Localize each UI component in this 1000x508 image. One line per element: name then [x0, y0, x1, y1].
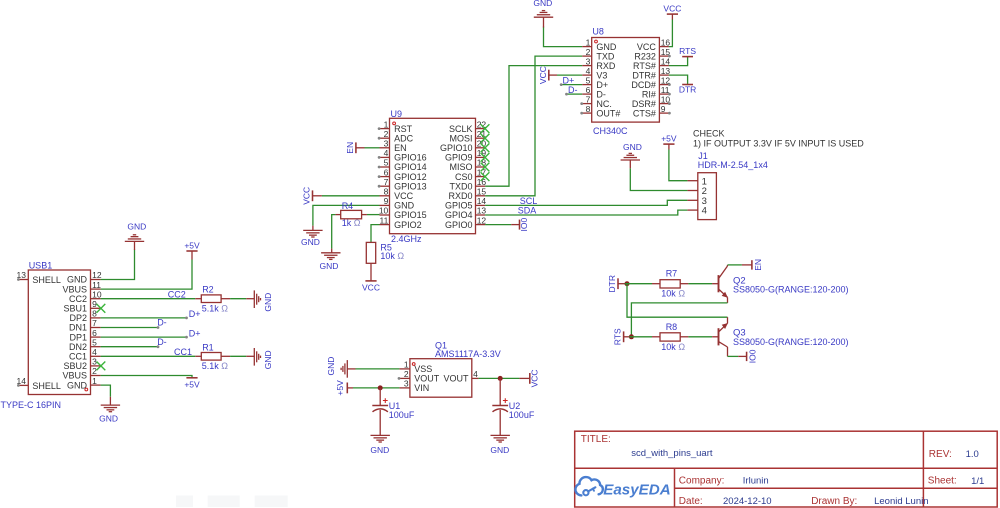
svg-text:3: 3 — [404, 379, 409, 389]
title value 2024-12-10 — [723, 496, 772, 507]
pin dot U8 pin10 — [668, 102, 671, 105]
connector J1 HDR-M-2.54_1x4 — [687, 151, 767, 219]
svg-text:USB1: USB1 — [29, 261, 53, 271]
svg-text:IO0: IO0 — [748, 349, 758, 363]
ground GND (below U9 pin9) — [301, 230, 323, 247]
svg-text:D+: D+ — [189, 329, 201, 339]
svg-text:14: 14 — [661, 56, 671, 66]
pin dot U9 pin5 — [378, 166, 381, 169]
label Q2 — [733, 275, 746, 286]
svg-text:D-: D- — [568, 85, 578, 95]
transistor Q3 — [712, 317, 728, 356]
svg-text:16: 16 — [661, 37, 671, 47]
svg-text:16: 16 — [477, 177, 487, 187]
junction RTS node — [629, 334, 634, 339]
wire DTR to R7 — [625, 283, 652, 285]
wire USB1 pin2 to +5V — [101, 376, 192, 378]
svg-text:RST: RST — [394, 124, 413, 134]
svg-text:RTS: RTS — [613, 328, 623, 345]
pin dot USB1 pin13 — [17, 278, 20, 281]
svg-text:CS0: CS0 — [455, 172, 473, 182]
svg-text:5.1k Ω: 5.1k Ω — [202, 303, 229, 313]
svg-text:EN: EN — [394, 143, 407, 153]
label U1 — [389, 401, 401, 411]
label R1 — [202, 342, 214, 352]
value SS8050-G(RANGE:120-200) (Q3) — [733, 337, 849, 347]
wire U8 pin1 to ground — [544, 17, 583, 46]
svg-text:3: 3 — [384, 139, 389, 149]
svg-text:D-: D- — [157, 318, 167, 328]
svg-text:GPIO12: GPIO12 — [394, 172, 427, 182]
junction at Q1 VIN / U1 — [378, 385, 383, 390]
junction DTR node — [625, 281, 630, 286]
svg-text:VIN: VIN — [414, 383, 429, 393]
net port EN (U9 pin3) — [345, 142, 365, 154]
svg-text:8: 8 — [586, 104, 591, 114]
svg-text:4: 4 — [473, 369, 478, 379]
svg-text:Date:: Date: — [679, 496, 703, 507]
wire USB1 pin12 to ground — [101, 241, 135, 279]
svg-text:15: 15 — [477, 187, 487, 197]
svg-text:EN: EN — [345, 142, 355, 154]
svg-text:12: 12 — [477, 215, 487, 225]
note line 1 — [693, 138, 864, 148]
wire Q3 collector to IO0 — [728, 355, 747, 357]
svg-text:DN1: DN1 — [69, 323, 87, 333]
net port DTR (left of R7) — [607, 275, 625, 292]
title value Irlunin — [743, 475, 769, 486]
wire EN to U9 pin3 — [365, 147, 380, 149]
title value 1.0 — [966, 449, 979, 460]
title label TITLE: — [581, 434, 611, 445]
wire R7 to Q2 base — [688, 283, 712, 285]
no-connect X U9 pin17 — [481, 172, 490, 181]
svg-text:SDA: SDA — [518, 206, 537, 216]
wire U8 pin6 stub — [565, 93, 582, 96]
wire USB1 pin1 to ground — [101, 385, 111, 405]
svg-text:10k Ω: 10k Ω — [380, 251, 404, 261]
svg-text:12: 12 — [92, 270, 102, 280]
ground GND (left of Q1) — [326, 357, 356, 378]
svg-text:1k Ω: 1k Ω — [342, 218, 361, 228]
svg-text:8: 8 — [384, 187, 389, 197]
svg-text:10: 10 — [379, 206, 389, 216]
ground GND (right of R1) — [246, 348, 273, 369]
svg-text:VBUS: VBUS — [62, 284, 87, 294]
power flag +5V (below USB1) — [184, 378, 200, 390]
svg-text:CC2: CC2 — [69, 294, 87, 304]
svg-text:SCL: SCL — [520, 196, 538, 206]
wire GND to J1 pin2 — [630, 160, 687, 191]
svg-text:1: 1 — [384, 119, 389, 129]
ground GND (above USB1) — [125, 222, 146, 242]
svg-text:SHELL: SHELL — [32, 275, 61, 285]
svg-text:100uF: 100uF — [509, 410, 535, 420]
net port RTS (U8) — [679, 46, 696, 56]
svg-text:NC.: NC. — [596, 99, 612, 109]
svg-text:R2: R2 — [202, 285, 214, 295]
svg-text:GND: GND — [490, 445, 509, 455]
label U2 — [509, 401, 521, 411]
wire DTR node to Q3 emitter — [627, 284, 728, 318]
wire U8 RXD to U9 TXD0 — [485, 66, 582, 187]
svg-text:HDR-M-2.54_1x4: HDR-M-2.54_1x4 — [698, 160, 768, 170]
net port RTS (left of R8) — [613, 328, 630, 345]
transistor Q2 — [712, 265, 728, 303]
svg-text:CHECK: CHECK — [693, 128, 725, 138]
svg-text:6: 6 — [384, 167, 389, 177]
resistor R5 — [366, 242, 375, 281]
svg-text:Drawn By:: Drawn By: — [811, 496, 857, 507]
wire U8 TXD to U9 RXD0 — [485, 56, 582, 196]
power flag +5V (above J1) — [661, 134, 677, 144]
svg-text:+5V: +5V — [184, 380, 200, 390]
power flag VCC (top right) — [663, 4, 681, 14]
svg-text:9: 9 — [384, 196, 389, 206]
value 5.1k ohm (R2) — [202, 303, 229, 313]
svg-text:TXD0: TXD0 — [449, 181, 472, 191]
label R4 — [342, 201, 354, 211]
svg-text:7: 7 — [92, 318, 97, 328]
resistor R8 — [652, 333, 688, 341]
net label D+ (DP2) — [189, 309, 201, 319]
svg-text:GPIO15: GPIO15 — [394, 210, 427, 220]
wire RTS to R8 — [629, 336, 652, 338]
ground GND (top, above U8) — [533, 0, 553, 17]
title label Drawn By: — [811, 496, 857, 507]
label R5 — [380, 243, 392, 253]
net label D+ (U8) — [563, 75, 575, 85]
svg-text:2: 2 — [384, 129, 389, 139]
svg-text:5: 5 — [92, 337, 97, 347]
svg-text:GPIO5: GPIO5 — [445, 201, 473, 211]
pin dot U8 pin8 — [580, 112, 583, 115]
title value scd_with_pins_uart — [631, 448, 713, 459]
svg-text:1) IF OUTPUT 3.3V IF 5V INPUT: 1) IF OUTPUT 3.3V IF 5V INPUT IS USED — [693, 138, 864, 148]
svg-text:5: 5 — [384, 158, 389, 168]
no-connect X U9 pin19 — [481, 153, 490, 162]
regulator Q1 AMS1117A-3.3V — [399, 340, 500, 397]
net port IO0 (U9) — [519, 217, 529, 231]
svg-text:1: 1 — [404, 360, 409, 370]
ground GND (right of R2) — [246, 290, 273, 311]
wire U8 DTR# to DTR flag — [669, 75, 688, 84]
svg-text:EN: EN — [753, 259, 763, 271]
svg-text:SS8050-G(RANGE:120-200): SS8050-G(RANGE:120-200) — [733, 284, 849, 294]
value 100uF (U2) — [509, 410, 535, 420]
svg-text:4: 4 — [586, 66, 591, 76]
svg-text:1/1: 1/1 — [971, 476, 984, 487]
svg-text:CTS#: CTS# — [633, 108, 656, 118]
svg-text:13: 13 — [477, 206, 487, 216]
net label SDA — [518, 206, 537, 216]
svg-text:3: 3 — [586, 56, 591, 66]
power flag VCC (below R5) — [362, 281, 380, 293]
no-connect X U9 pin21 — [481, 134, 490, 143]
svg-text:+5V: +5V — [184, 241, 200, 251]
svg-text:SCLK: SCLK — [449, 124, 473, 134]
svg-text:GPIO16: GPIO16 — [394, 153, 427, 163]
ground GND (below U1) — [370, 435, 390, 454]
connector USB1 TYPE-C 16PIN — [1, 261, 102, 410]
svg-text:GND: GND — [370, 445, 389, 455]
svg-text:100uF: 100uF — [389, 410, 415, 420]
svg-text:D-: D- — [157, 337, 167, 347]
wire USB1 CC1 to R1 — [101, 355, 196, 357]
svg-text:GND: GND — [533, 0, 552, 8]
no-connect X USB1 pin9 — [97, 304, 106, 313]
svg-text:Sheet:: Sheet: — [928, 476, 957, 487]
svg-text:CC1: CC1 — [69, 352, 87, 362]
net port DTR (U8) — [679, 85, 696, 95]
label R7 — [666, 269, 678, 279]
svg-text:U9: U9 — [391, 109, 403, 119]
svg-text:TYPE-C 16PIN: TYPE-C 16PIN — [1, 400, 62, 410]
power flag +5V (above USB1) — [184, 241, 200, 251]
svg-text:GND: GND — [596, 42, 617, 52]
wire +5V to J1 pin1 — [669, 144, 688, 181]
svg-text:VCC: VCC — [663, 4, 681, 14]
svg-text:9: 9 — [661, 104, 666, 114]
no-connect X USB1 pin3 — [97, 362, 106, 371]
svg-text:RTS: RTS — [679, 46, 696, 56]
svg-text:OUT#: OUT# — [596, 108, 620, 118]
svg-text:GPIO13: GPIO13 — [394, 181, 427, 191]
pin dot U9 pin6 — [378, 175, 381, 178]
pin dot U9 pin1 — [378, 127, 381, 130]
wire USB1 DN1 stub — [101, 326, 160, 329]
svg-text:GND: GND — [127, 222, 146, 232]
svg-text:2: 2 — [586, 47, 591, 57]
wire USB1 CC2 to R2 — [101, 298, 196, 300]
svg-text:RI#: RI# — [642, 89, 656, 99]
svg-text:GND: GND — [67, 275, 88, 285]
pin dot Q1 pin2 — [398, 377, 401, 380]
title label Date: — [679, 496, 703, 507]
ground GND (below U2) — [490, 435, 510, 454]
svg-text:7: 7 — [384, 177, 389, 187]
wire U9 pin9 to ground — [313, 205, 380, 230]
wire USB1 DN2 stub — [101, 345, 160, 348]
value 10k ohm (R7) — [661, 289, 685, 299]
IC U8 CH340C — [582, 26, 670, 136]
svg-text:GND: GND — [301, 237, 320, 247]
wire Q1 VOUT to VCC — [479, 377, 520, 379]
svg-text:DCD#: DCD# — [631, 80, 656, 90]
svg-text:+: + — [383, 396, 389, 407]
no-connect X U9 pin20 — [481, 143, 490, 152]
svg-text:GND: GND — [326, 357, 336, 376]
svg-text:VCC: VCC — [538, 66, 548, 84]
svg-text:6: 6 — [586, 85, 591, 95]
svg-text:D+: D+ — [596, 80, 608, 90]
net label CC1 — [174, 347, 192, 357]
svg-text:D+: D+ — [563, 75, 575, 85]
wire U9 pin10 to R4 — [362, 214, 380, 216]
wire USB1 pin11 to +5V — [101, 251, 192, 289]
label Q3 — [733, 327, 746, 338]
svg-text:GPIO2: GPIO2 — [394, 220, 422, 230]
wire U9 pin11 to R5 — [371, 225, 380, 243]
svg-text:scd_with_pins_uart: scd_with_pins_uart — [631, 448, 713, 459]
svg-text:TXD: TXD — [596, 51, 615, 61]
svg-text:CC2: CC2 — [168, 289, 186, 299]
svg-text:2024-12-10: 2024-12-10 — [723, 496, 772, 507]
svg-text:GPIO0: GPIO0 — [445, 220, 473, 230]
junction at Q1 VOUT / U2 — [498, 376, 503, 381]
svg-text:R7: R7 — [666, 269, 678, 279]
svg-text:RXD0: RXD0 — [448, 191, 472, 201]
svg-text:3: 3 — [92, 357, 97, 367]
svg-text:D-: D- — [596, 89, 606, 99]
svg-text:IO0: IO0 — [519, 217, 529, 231]
svg-text:5: 5 — [586, 75, 591, 85]
svg-text:EasyEDA: EasyEDA — [603, 481, 671, 498]
svg-text:DTR: DTR — [679, 85, 696, 95]
pin dot U8 pin12 — [668, 83, 671, 86]
wire VCC to U9 pin8 — [322, 195, 380, 197]
label R2 — [202, 285, 214, 295]
svg-text:4: 4 — [384, 148, 389, 158]
net label D- (DN2) — [157, 337, 167, 347]
svg-text:1: 1 — [92, 376, 97, 386]
svg-text:13: 13 — [661, 66, 671, 76]
svg-text:6: 6 — [92, 328, 97, 338]
no-connect X U9 pin22 — [481, 124, 490, 133]
wire USB1 DP2 stub — [101, 317, 188, 320]
svg-text:VOUT: VOUT — [414, 374, 440, 384]
svg-text:4: 4 — [92, 347, 97, 357]
svg-text:MOSI: MOSI — [449, 133, 472, 143]
title label REV: — [929, 449, 952, 460]
faint watermark rectangles — [176, 496, 288, 508]
net label D- (DN1) — [157, 318, 167, 328]
svg-text:1.0: 1.0 — [966, 449, 979, 460]
svg-text:DTR: DTR — [607, 275, 617, 292]
pin dot U8 pin7 — [580, 102, 583, 105]
svg-text:DP1: DP1 — [69, 332, 87, 342]
svg-text:VCC: VCC — [302, 187, 312, 205]
wire Q2 collector to EN — [728, 264, 752, 266]
wire U9 pin12 to IO0 — [485, 224, 519, 226]
svg-text:SHELL: SHELL — [32, 381, 61, 391]
wire R1 to ground — [230, 355, 246, 357]
wire R4 to ground — [332, 215, 336, 253]
net port IO0 (right of Q3) — [747, 349, 758, 363]
svg-text:GND: GND — [263, 293, 273, 312]
value 100uF (U1) — [389, 410, 415, 420]
svg-text:2: 2 — [92, 366, 97, 376]
svg-text:VBUS: VBUS — [62, 371, 87, 381]
EasyEDA logo — [575, 477, 670, 498]
wire VCC to U8 pin4 — [557, 74, 582, 76]
value 5.1k ohm (R1) — [202, 361, 229, 371]
resistor R4 — [335, 210, 361, 218]
svg-text:SS8050-G(RANGE:120-200): SS8050-G(RANGE:120-200) — [733, 337, 849, 347]
wire R2 to ground — [230, 298, 246, 300]
wire SDA U9 pin13 to J1 pin4 — [485, 210, 687, 215]
svg-text:MISO: MISO — [449, 162, 472, 172]
wire +5V to Q1 VIN — [353, 387, 399, 389]
svg-text:7: 7 — [586, 94, 591, 104]
svg-text:RXD: RXD — [596, 61, 616, 71]
svg-text:2: 2 — [404, 369, 409, 379]
svg-text:U8: U8 — [592, 26, 604, 36]
svg-text:TITLE:: TITLE: — [581, 434, 611, 445]
power flag VCC at U9 pin8 — [302, 187, 322, 205]
svg-text:GND: GND — [67, 380, 88, 390]
svg-text:VOUT: VOUT — [443, 374, 469, 384]
capacitor U1 — [372, 388, 388, 436]
net label D- (U8) — [568, 85, 578, 95]
svg-text:R8: R8 — [666, 322, 678, 332]
svg-text:4: 4 — [702, 206, 707, 217]
net label CC2 — [168, 289, 186, 299]
svg-text:REV:: REV: — [929, 449, 952, 460]
title value Leonid Lunin — [874, 496, 928, 507]
pin dot U8 pin15 — [668, 55, 671, 58]
svg-text:R1: R1 — [202, 342, 214, 352]
wire U8 pin5 stub — [560, 83, 582, 86]
svg-text:GPIO9: GPIO9 — [445, 153, 473, 163]
power flag VCC at U8 pin V3 — [538, 66, 557, 84]
svg-text:Company:: Company: — [679, 475, 725, 486]
svg-text:11: 11 — [379, 215, 388, 225]
wire GND to Q1 VSS — [356, 368, 400, 370]
svg-text:9: 9 — [92, 299, 97, 309]
svg-text:ADC: ADC — [394, 133, 414, 143]
no-connect X U9 pin18 — [481, 163, 490, 172]
pin dot U9 pin7 — [378, 185, 381, 188]
value 10k ohm (R8) — [661, 342, 685, 352]
power flag VCC (right of Q1) — [519, 369, 539, 387]
net port EN (right of Q2) — [752, 259, 763, 271]
resistor R7 — [652, 280, 688, 288]
svg-text:1: 1 — [586, 37, 591, 47]
wire SCL U9 pin14 to J1 pin3 — [485, 200, 687, 205]
svg-text:14: 14 — [477, 196, 487, 206]
svg-text:V3: V3 — [596, 70, 607, 80]
capacitor U2 — [492, 378, 508, 435]
title value 1/1 — [971, 476, 984, 487]
svg-text:+: + — [503, 396, 509, 407]
svg-text:GPIO10: GPIO10 — [440, 143, 473, 153]
title label Company: — [679, 475, 725, 486]
svg-text:DTR#: DTR# — [632, 70, 656, 80]
wire U8 RTS# to RTS flag — [669, 57, 688, 66]
svg-text:R232: R232 — [634, 51, 656, 61]
svg-text:10k Ω: 10k Ω — [661, 289, 685, 299]
svg-text:10k Ω: 10k Ω — [661, 342, 685, 352]
value 10k ohm (R5) — [380, 251, 404, 261]
svg-text:GND: GND — [320, 261, 339, 271]
title label Sheet: — [928, 476, 957, 487]
net label D+ (DP1) — [189, 329, 201, 339]
title block frame — [575, 431, 998, 507]
svg-text:VSS: VSS — [414, 364, 432, 374]
svg-text:VCC: VCC — [637, 42, 657, 52]
svg-text:DN2: DN2 — [69, 342, 87, 352]
svg-text:GND: GND — [394, 201, 415, 211]
svg-text:8: 8 — [92, 309, 97, 319]
svg-text:+5V: +5V — [335, 380, 345, 396]
pin dot U8 pin11 — [668, 93, 671, 96]
resistor R2 — [195, 295, 230, 303]
svg-text:GND: GND — [623, 142, 642, 152]
wire R8 to Q3 base — [688, 336, 712, 338]
svg-text:RTS#: RTS# — [633, 61, 656, 71]
svg-text:CH340C: CH340C — [593, 126, 628, 136]
